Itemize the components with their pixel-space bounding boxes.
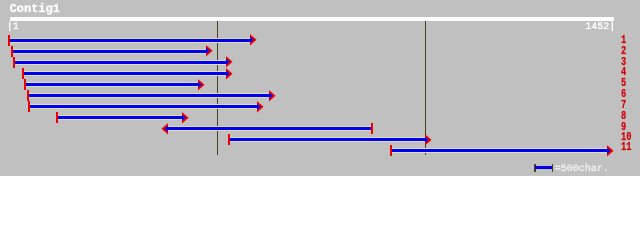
read label 10 — [621, 132, 631, 143]
read 6 line — [27, 94, 269, 97]
read 5 arrowhead — [198, 79, 205, 91]
read 9 arrowhead (reverse) — [161, 123, 168, 135]
ruler bar — [10, 17, 614, 21]
read 2 arrowhead — [206, 45, 213, 57]
read 11 line — [390, 149, 607, 152]
legend text =500char. — [555, 165, 609, 175]
read 4 line — [22, 72, 226, 75]
read 10 line — [229, 138, 425, 141]
boundary line 1 — [217, 21, 218, 155]
read 3 start tick — [13, 57, 15, 68]
legend left tick — [534, 164, 536, 172]
read 3 arrowhead — [226, 56, 233, 68]
read 5 line — [24, 83, 198, 86]
read 2 line — [11, 50, 206, 53]
read 3 line — [14, 61, 226, 64]
read 6 start tick — [27, 90, 29, 101]
contig title "Contig1" — [10, 4, 60, 15]
legend scale bar — [535, 166, 552, 169]
read 10 start tick — [228, 134, 230, 145]
read label 6 — [621, 89, 626, 100]
read 11 arrowhead — [607, 145, 614, 157]
read 1 arrowhead — [250, 34, 257, 46]
read 8 start tick — [56, 112, 58, 123]
read 6 arrowhead — [269, 90, 276, 102]
read label 7 — [621, 100, 626, 111]
read 8 arrowhead — [182, 112, 189, 124]
read 9 line — [167, 127, 371, 130]
read label 1 — [621, 35, 626, 46]
read label 4 — [621, 67, 626, 78]
legend right tick — [552, 164, 554, 172]
read 1 start tick — [8, 35, 10, 46]
read 7 line — [28, 105, 257, 108]
read 8 line — [56, 116, 182, 119]
read 11 start tick — [390, 145, 392, 156]
read 7 arrowhead — [257, 101, 264, 113]
boundary line 2 — [425, 21, 426, 155]
read 1 line — [8, 39, 250, 42]
read label 8 — [621, 111, 626, 122]
read 5 start tick — [24, 79, 26, 90]
read 4 arrowhead — [226, 68, 233, 80]
read 7 start tick — [28, 101, 30, 112]
ruler start label |1 — [7, 23, 19, 33]
ruler end label 1452| — [585, 23, 615, 33]
read label 2 — [621, 46, 626, 57]
read 10 arrowhead — [425, 134, 432, 146]
read label 5 — [621, 78, 626, 89]
read label 3 — [621, 57, 626, 68]
read 4 start tick — [22, 68, 24, 79]
read 9 end tick — [371, 123, 373, 134]
read label 11 — [621, 142, 631, 153]
read 2 start tick — [11, 46, 13, 57]
read label 9 — [621, 122, 626, 133]
